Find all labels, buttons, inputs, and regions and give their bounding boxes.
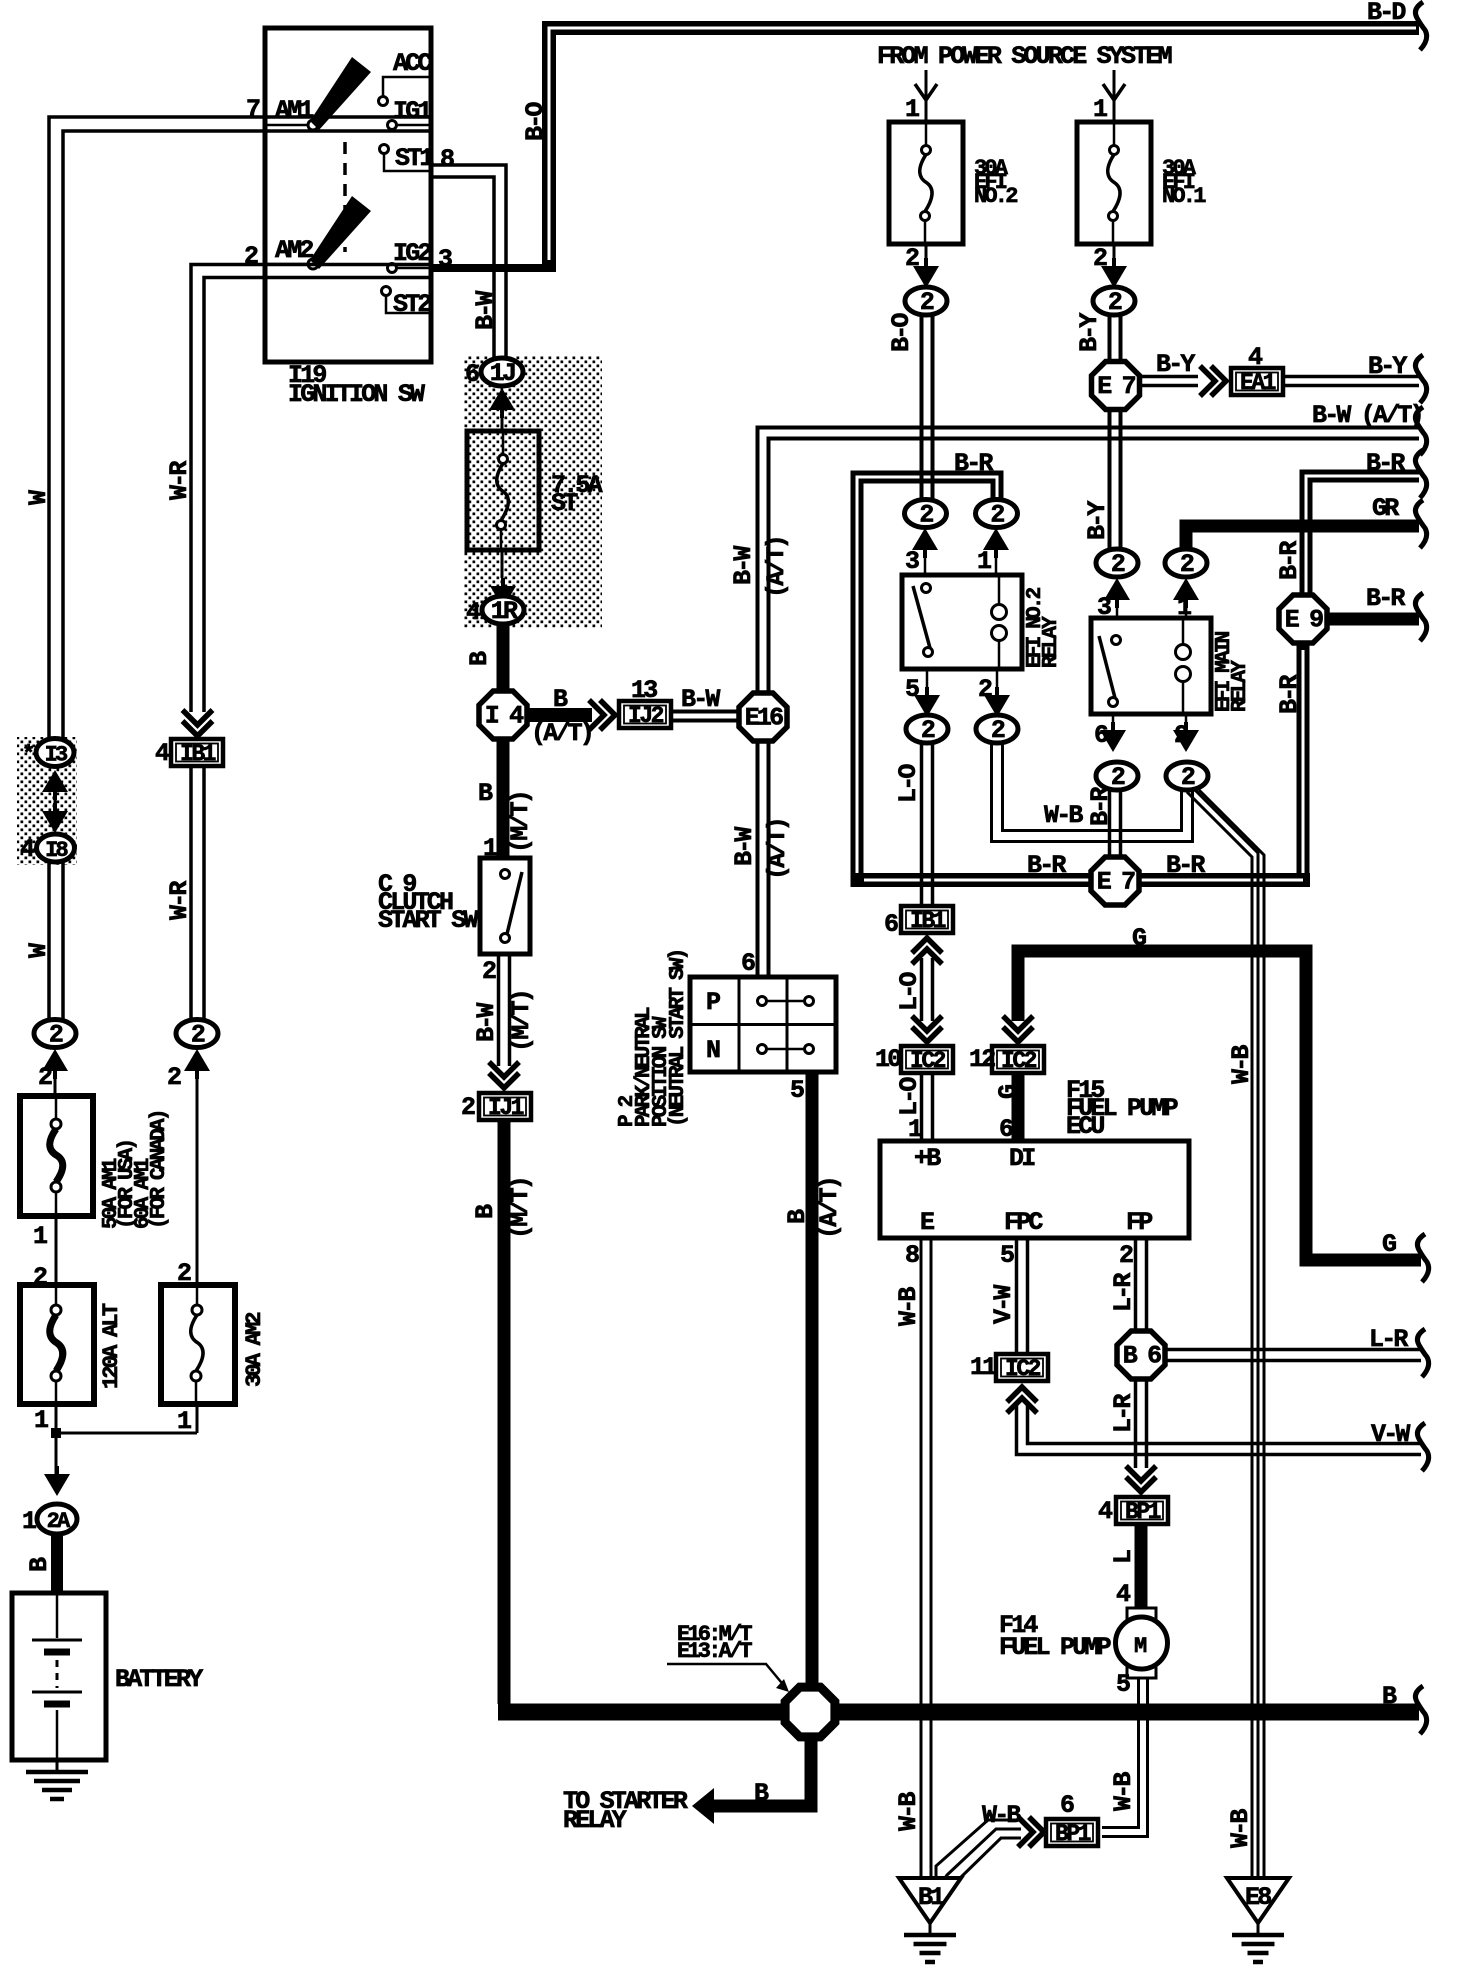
svg-text:12: 12 bbox=[969, 1045, 995, 1074]
svg-text:1: 1 bbox=[34, 1406, 48, 1435]
svg-text:NO.1: NO.1 bbox=[1162, 184, 1206, 209]
svg-text:E16: E16 bbox=[745, 704, 783, 733]
svg-text:W-B: W-B bbox=[894, 1287, 923, 1326]
svg-text:6: 6 bbox=[465, 360, 479, 389]
svg-text:DI: DI bbox=[1009, 1144, 1035, 1173]
svg-text:E 7: E 7 bbox=[1097, 372, 1135, 401]
svg-text:L-O: L-O bbox=[894, 764, 923, 803]
svg-text:8: 8 bbox=[440, 145, 454, 174]
svg-text:2: 2 bbox=[991, 716, 1005, 745]
svg-text:2: 2 bbox=[49, 1021, 63, 1050]
svg-text:GR: GR bbox=[1372, 494, 1399, 523]
svg-text:2: 2 bbox=[244, 242, 258, 271]
svg-text:2: 2 bbox=[38, 1063, 52, 1092]
svg-text:B-Y: B-Y bbox=[1156, 350, 1195, 379]
svg-text:6: 6 bbox=[1060, 1791, 1074, 1820]
svg-text:E 9: E 9 bbox=[1285, 606, 1323, 635]
svg-text:AM1: AM1 bbox=[275, 96, 313, 125]
svg-text:AM2: AM2 bbox=[275, 236, 313, 265]
svg-text:V-W: V-W bbox=[989, 1285, 1018, 1324]
svg-text:IG1: IG1 bbox=[393, 97, 431, 126]
svg-text:ST1: ST1 bbox=[395, 144, 433, 173]
svg-text:ST: ST bbox=[551, 489, 578, 518]
svg-text:30A AM2: 30A AM2 bbox=[242, 1313, 267, 1387]
svg-text:IC2: IC2 bbox=[1005, 1356, 1041, 1382]
svg-text:N: N bbox=[706, 1036, 720, 1065]
svg-text:RELAY: RELAY bbox=[563, 1806, 627, 1835]
svg-text:+B: +B bbox=[914, 1144, 941, 1173]
svg-text:IC2: IC2 bbox=[910, 1048, 946, 1074]
svg-text:FP: FP bbox=[1126, 1208, 1152, 1237]
svg-text:*: * bbox=[22, 742, 33, 767]
svg-text:FPC: FPC bbox=[1004, 1208, 1043, 1237]
svg-text:2: 2 bbox=[1111, 763, 1125, 792]
svg-text:L-O: L-O bbox=[895, 1077, 924, 1116]
svg-text:5: 5 bbox=[1000, 1241, 1014, 1270]
svg-text:10: 10 bbox=[875, 1045, 901, 1074]
svg-text:(A/T): (A/T) bbox=[531, 719, 592, 748]
svg-text:(M/T): (M/T) bbox=[507, 991, 536, 1052]
svg-text:W-R: W-R bbox=[165, 881, 194, 920]
svg-text:IJ2: IJ2 bbox=[628, 703, 664, 729]
svg-text:EA1: EA1 bbox=[1240, 370, 1276, 396]
svg-text:2: 2 bbox=[920, 288, 934, 317]
svg-text:W-B: W-B bbox=[1227, 1045, 1256, 1084]
svg-text:IB1: IB1 bbox=[910, 908, 946, 934]
svg-text:BATTERY: BATTERY bbox=[115, 1665, 203, 1694]
svg-text:B-R: B-R bbox=[1086, 787, 1115, 826]
svg-text:2: 2 bbox=[1180, 550, 1194, 579]
svg-text:B-R: B-R bbox=[1027, 851, 1066, 880]
svg-text:L: L bbox=[1109, 1550, 1138, 1564]
svg-text:B-W: B-W bbox=[730, 827, 759, 866]
svg-text:L-R: L-R bbox=[1109, 1273, 1138, 1312]
svg-text:B-W: B-W bbox=[472, 1003, 501, 1042]
svg-text:B-D: B-D bbox=[1367, 0, 1406, 27]
svg-text:NO.2: NO.2 bbox=[974, 184, 1017, 209]
svg-text:B-R: B-R bbox=[1275, 675, 1304, 714]
svg-text:1R: 1R bbox=[491, 597, 518, 626]
svg-text:G: G bbox=[994, 1085, 1023, 1099]
svg-text:IC2: IC2 bbox=[1001, 1048, 1037, 1074]
svg-text:13: 13 bbox=[631, 676, 657, 705]
svg-text:(M/T): (M/T) bbox=[506, 792, 535, 853]
svg-text:W-R: W-R bbox=[165, 461, 194, 500]
svg-text:B-R: B-R bbox=[1366, 584, 1405, 613]
svg-text:B-Y: B-Y bbox=[1368, 352, 1407, 381]
svg-text:1J: 1J bbox=[490, 359, 515, 388]
svg-text:ECU: ECU bbox=[1066, 1112, 1104, 1141]
svg-text:B-Y: B-Y bbox=[1083, 501, 1112, 540]
svg-text:1: 1 bbox=[33, 1222, 47, 1251]
svg-text:(A/T): (A/T) bbox=[815, 1178, 844, 1239]
svg-text:RELAY: RELAY bbox=[1229, 660, 1252, 712]
svg-text:B-R: B-R bbox=[1275, 541, 1304, 580]
svg-text:FUEL PUMP: FUEL PUMP bbox=[999, 1633, 1111, 1662]
svg-text:B1: B1 bbox=[918, 1883, 944, 1912]
svg-text:2: 2 bbox=[1111, 550, 1125, 579]
svg-text:L-R: L-R bbox=[1369, 1325, 1408, 1354]
svg-text:IGNITION SW: IGNITION SW bbox=[288, 380, 425, 409]
svg-text:(A/T): (A/T) bbox=[763, 819, 792, 880]
svg-text:W-B: W-B bbox=[894, 1792, 923, 1831]
svg-text:E: E bbox=[920, 1208, 934, 1237]
svg-text:W-B: W-B bbox=[1109, 1772, 1138, 1811]
svg-text:L-R: L-R bbox=[1109, 1394, 1138, 1433]
svg-text:2: 2 bbox=[921, 716, 935, 745]
svg-text:5: 5 bbox=[790, 1076, 804, 1105]
svg-text:BP1: BP1 bbox=[1055, 1821, 1091, 1847]
svg-text:(NEUTRAL START SW): (NEUTRAL START SW) bbox=[667, 950, 690, 1127]
svg-text:W-B: W-B bbox=[982, 1801, 1021, 1830]
svg-text:ACC: ACC bbox=[393, 49, 432, 78]
svg-text:2: 2 bbox=[919, 501, 933, 530]
svg-text:W-B: W-B bbox=[1044, 801, 1083, 830]
svg-text:B-W: B-W bbox=[471, 291, 500, 330]
svg-text:B-R: B-R bbox=[954, 449, 993, 478]
svg-text:E 7: E 7 bbox=[1097, 868, 1135, 897]
svg-text:W-B: W-B bbox=[1226, 1809, 1255, 1848]
svg-text:START SW: START SW bbox=[378, 906, 478, 935]
svg-text:8: 8 bbox=[905, 1241, 919, 1270]
svg-text:G: G bbox=[1132, 924, 1146, 953]
svg-text:1: 1 bbox=[977, 547, 991, 576]
svg-text:B-R: B-R bbox=[1166, 851, 1205, 880]
svg-text:E8: E8 bbox=[1245, 1883, 1271, 1912]
svg-text:RELAY: RELAY bbox=[1040, 616, 1063, 668]
svg-text:2: 2 bbox=[167, 1063, 181, 1092]
svg-text:2: 2 bbox=[461, 1093, 475, 1122]
svg-text:IJ1: IJ1 bbox=[488, 1095, 524, 1121]
svg-text:IB1: IB1 bbox=[180, 741, 216, 767]
svg-text:B-R: B-R bbox=[1366, 449, 1405, 478]
svg-text:5: 5 bbox=[1116, 1670, 1130, 1699]
svg-text:B-W: B-W bbox=[729, 546, 758, 585]
svg-text:E13:A/T: E13:A/T bbox=[677, 1639, 752, 1664]
svg-text:B-W (A/T): B-W (A/T) bbox=[1312, 401, 1422, 430]
svg-text:V-W: V-W bbox=[1371, 1420, 1410, 1449]
svg-text:I8: I8 bbox=[45, 838, 68, 863]
svg-text:6: 6 bbox=[741, 949, 755, 978]
svg-text:B 6: B 6 bbox=[1123, 1342, 1161, 1371]
svg-text:ST2: ST2 bbox=[393, 290, 431, 319]
svg-text:120A ALT: 120A ALT bbox=[99, 1303, 124, 1389]
svg-text:G: G bbox=[1382, 1230, 1396, 1259]
svg-text:2A: 2A bbox=[47, 1509, 71, 1534]
svg-text:I3: I3 bbox=[45, 743, 68, 768]
svg-text:7: 7 bbox=[246, 95, 260, 124]
svg-text:B-Y: B-Y bbox=[1075, 313, 1104, 352]
svg-text:FROM POWER SOURCE SYSTEM: FROM POWER SOURCE SYSTEM bbox=[877, 42, 1172, 71]
svg-text:2: 2 bbox=[1119, 1241, 1133, 1270]
svg-text:B-O: B-O bbox=[521, 102, 550, 141]
svg-text:6: 6 bbox=[884, 910, 898, 939]
svg-text:(A/T): (A/T) bbox=[762, 537, 791, 598]
svg-text:B-W: B-W bbox=[681, 685, 720, 714]
svg-text:2: 2 bbox=[482, 957, 496, 986]
svg-text:3: 3 bbox=[905, 547, 919, 576]
svg-text:2: 2 bbox=[191, 1021, 205, 1050]
svg-text:(M/T): (M/T) bbox=[506, 1178, 535, 1239]
svg-text:L-O: L-O bbox=[895, 972, 924, 1011]
svg-text:BP1: BP1 bbox=[1125, 1499, 1161, 1525]
svg-text:2: 2 bbox=[1181, 763, 1195, 792]
svg-text:1: 1 bbox=[22, 1507, 36, 1536]
svg-text:2: 2 bbox=[990, 501, 1004, 530]
svg-text:11: 11 bbox=[970, 1353, 996, 1382]
svg-text:2: 2 bbox=[1108, 288, 1122, 317]
svg-text:P: P bbox=[706, 988, 720, 1017]
svg-text:I 4: I 4 bbox=[485, 702, 524, 731]
svg-text:(FOR CANADA): (FOR CANADA) bbox=[148, 1111, 171, 1229]
svg-text:B-O: B-O bbox=[887, 313, 916, 352]
